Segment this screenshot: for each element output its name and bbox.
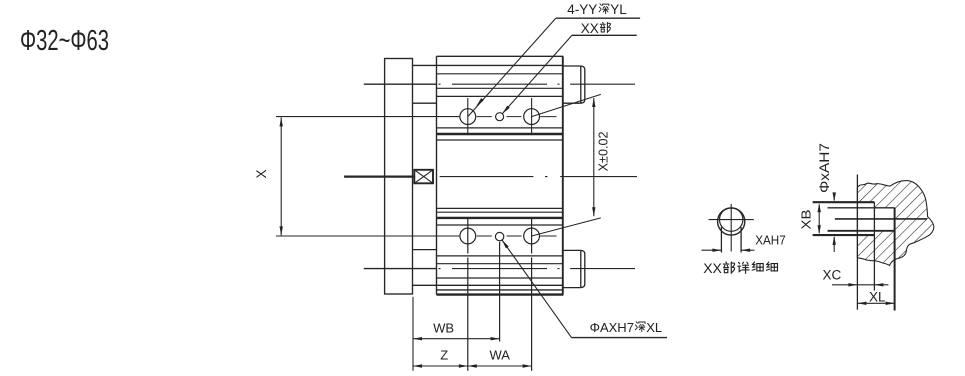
bore centre line [835,218,927,220]
hole row centre lines [477,117,557,236]
leader to top-left counterbore [468,18,556,116]
svg-text:X±0.02: X±0.02 [597,131,611,171]
dimension XC [832,284,888,286]
rod mounting box symbol [414,170,433,184]
svg-text:WA: WA [489,347,510,362]
dimension WB [412,297,414,371]
counterbore hole top-right [524,109,540,125]
underline of 4-YY label [556,17,640,19]
detail crosshair [709,204,754,252]
svg-text:YL: YL [610,2,627,17]
bore step vertical [873,202,875,290]
underline of phi-AXH7 label [572,337,668,339]
hole crosshair verticals bottom, extended as extension lines [468,217,532,371]
dimension Z and WA shared line [413,365,532,367]
pin hole top-centre [496,113,504,121]
svg-text:XL: XL [869,289,886,304]
body horizontal slot lines [413,65,564,290]
svg-text:XB: XB [800,210,814,230]
dimension X [280,117,282,235]
detail view XX outer circle [718,208,745,235]
detail view XX inner circle [720,208,743,231]
svg-text:ΦAXH7: ΦAXH7 [590,320,634,335]
detail tangent extension lines [721,227,741,253]
guide rod upper edges [364,84,437,268]
top port boss [563,66,585,103]
svg-text:X: X [254,169,269,178]
svg-text:Z: Z [440,348,448,363]
svg-text:ΦxAH7: ΦxAH7 [817,143,832,193]
dimension XAH7 [702,249,722,251]
hole crosshair verticals top [468,98,532,135]
cylinder body outline [437,56,564,294]
big bore top edge [813,201,875,203]
section detail hatched body [857,181,933,266]
leader to top pin hole [502,35,572,114]
dimension X extension lines [276,117,459,236]
bore white cutouts [857,202,874,235]
dimension XB [818,205,820,234]
dimension X+-0.02 slanted extension lines [532,94,601,236]
dimension X+-0.02 [593,98,595,216]
rod end plate [385,59,413,295]
counterbore hole bottom-right [524,228,540,244]
svg-text:XC: XC [823,268,842,283]
small bore bottom edge [828,230,895,232]
section body surface line [856,175,858,310]
svg-text:XAH7: XAH7 [755,234,786,248]
bottom port boss [563,250,585,287]
svg-text:XX: XX [581,21,599,36]
svg-text:Φ32~Φ63: Φ32~Φ63 [20,25,109,57]
underline of XX part label [572,34,637,36]
big bore bottom edge [813,234,875,236]
counterbore hole bottom-left [460,228,476,244]
piston rod thick line [344,175,414,177]
dimension XL [857,302,894,304]
svg-text:WB: WB [433,321,454,336]
svg-text:XL: XL [646,320,662,335]
svg-text:XX: XX [703,260,722,276]
neck block between plate and body [413,103,437,249]
svg-text:4-YY: 4-YY [567,2,597,17]
counterbore hole top-left [460,109,476,125]
leader to bottom pin hole [502,240,572,338]
main centre line [440,176,637,178]
small bore top edge [828,207,895,209]
port centre lines [439,84,636,268]
pin hole bottom-centre [495,232,503,240]
small bore end vertical [894,208,896,311]
